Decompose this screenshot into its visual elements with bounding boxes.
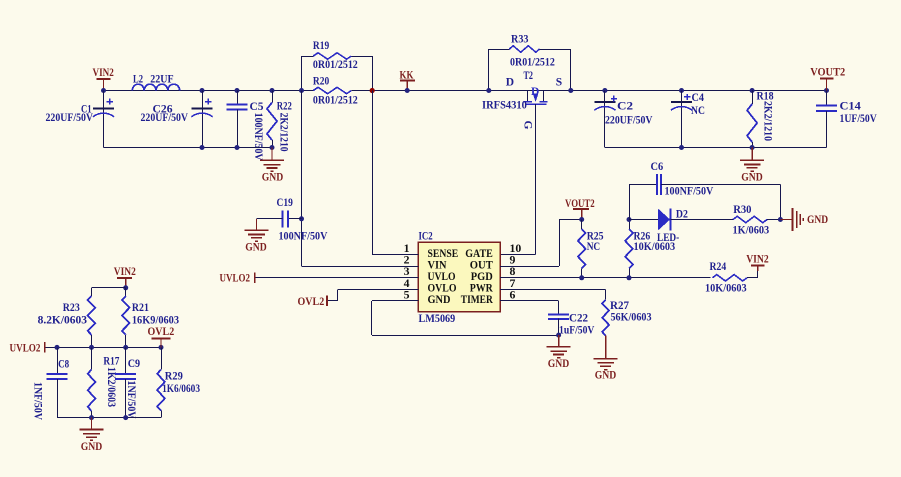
capacitor C9 bbox=[125, 347, 127, 374]
net label KK bbox=[400, 80, 415, 82]
svg-text:100NF/50V: 100NF/50V bbox=[252, 113, 264, 162]
svg-text:10K/0603: 10K/0603 bbox=[705, 283, 747, 295]
svg-text:R29: R29 bbox=[165, 371, 183, 383]
svg-text:100NF/50V: 100NF/50V bbox=[665, 186, 714, 198]
svg-text:GND: GND bbox=[428, 293, 451, 306]
wire IC pin6 TIMER bbox=[500, 300, 558, 302]
capacitor C19 bbox=[299, 216, 304, 221]
svg-text:220UF/50V: 220UF/50V bbox=[46, 112, 94, 124]
node VIN2 bottom-left bbox=[123, 285, 128, 290]
resistor R29 bbox=[161, 347, 163, 369]
svg-text:100NF/50V: 100NF/50V bbox=[279, 231, 328, 243]
svg-text:LED-: LED- bbox=[657, 232, 679, 244]
inductor L2 bbox=[132, 84, 179, 90]
svg-text:2K2/1210: 2K2/1210 bbox=[762, 101, 774, 141]
capacitor C6 loop bbox=[629, 184, 631, 219]
wire VIN2 node to R23 bbox=[92, 287, 126, 289]
svg-text:C4: C4 bbox=[692, 92, 705, 104]
svg-text:0R01/2512: 0R01/2512 bbox=[313, 59, 358, 71]
wire IC pin1 SENSE bbox=[372, 254, 418, 256]
ground GND under R18 bbox=[751, 148, 753, 161]
svg-text:UVLO2: UVLO2 bbox=[220, 273, 251, 285]
svg-text:VIN2: VIN2 bbox=[93, 67, 114, 79]
svg-text:GND: GND bbox=[245, 242, 267, 254]
supply VIN2 top-left bbox=[97, 78, 111, 80]
svg-text:C8: C8 bbox=[58, 359, 69, 371]
wire SENSE net vertical to IC pin1 bbox=[372, 91, 374, 255]
svg-text:NC: NC bbox=[587, 241, 601, 253]
svg-text:OVL2: OVL2 bbox=[148, 326, 175, 338]
svg-text:C2: C2 bbox=[617, 101, 633, 113]
svg-text:16K9/0603: 16K9/0603 bbox=[132, 315, 179, 327]
transistor T2 IRFS4310 bbox=[527, 91, 529, 101]
resistor R25 bbox=[578, 229, 586, 268]
svg-text:R20: R20 bbox=[313, 76, 329, 88]
svg-text:GND: GND bbox=[595, 370, 617, 382]
wire IC pin9 OUT to VOUT2 node bbox=[500, 266, 559, 268]
wire IC pin5 GND loop bbox=[372, 300, 419, 302]
svg-text:IC2: IC2 bbox=[419, 231, 433, 243]
resistor R26 bbox=[625, 229, 633, 268]
svg-text:8.2K/0603: 8.2K/0603 bbox=[38, 315, 88, 327]
svg-text:1K/0603: 1K/0603 bbox=[733, 225, 770, 237]
svg-text:R30: R30 bbox=[733, 204, 752, 216]
node R21/C9 bbox=[123, 345, 128, 350]
wire IC pin8 PGD net bbox=[500, 277, 710, 279]
svg-text:TIMER: TIMER bbox=[461, 293, 494, 306]
svg-text:R22: R22 bbox=[277, 101, 292, 113]
net label UVLO2 mid bbox=[254, 273, 256, 283]
resistor R17 bbox=[91, 347, 93, 369]
wire IC pin3 UVLO to UVLO2 bbox=[255, 277, 419, 279]
wire UVLO2 row bbox=[45, 347, 161, 349]
svg-text:GND: GND bbox=[548, 358, 570, 370]
ground GND under R22 bbox=[271, 148, 273, 161]
svg-text:56K/0603: 56K/0603 bbox=[611, 312, 652, 324]
svg-text:D2: D2 bbox=[676, 209, 688, 221]
wire gate to IC pin10 bbox=[535, 104, 537, 255]
capacitor C26 bbox=[200, 88, 205, 93]
node R30 right bbox=[778, 217, 783, 222]
component IC2 LM5069 bbox=[418, 242, 500, 311]
svg-text:C5: C5 bbox=[250, 101, 264, 113]
capacitor C14 bbox=[824, 88, 829, 93]
svg-text:GND: GND bbox=[807, 214, 828, 226]
svg-text:1K2/0603: 1K2/0603 bbox=[105, 367, 117, 407]
svg-text:GND: GND bbox=[262, 172, 284, 184]
capacitor C2 bbox=[602, 88, 607, 93]
node C8 top bbox=[55, 345, 60, 350]
ground GND under R27 bbox=[605, 336, 607, 359]
svg-text:IRFS4310: IRFS4310 bbox=[482, 100, 527, 112]
resistor R21 bbox=[125, 288, 127, 296]
supply VOUT2 mid bbox=[573, 208, 589, 210]
capacitor C22 bbox=[548, 314, 569, 316]
svg-text:C9: C9 bbox=[128, 358, 141, 370]
svg-text:R27: R27 bbox=[610, 300, 629, 312]
wire top rail right segment bbox=[351, 90, 826, 92]
svg-text:OVL2: OVL2 bbox=[298, 296, 325, 308]
wire IC pin4 OVLO to OVL2 bbox=[337, 289, 339, 301]
svg-text:G: G bbox=[522, 121, 534, 130]
svg-text:KK: KK bbox=[400, 70, 414, 82]
wire VIN net vertical to IC pin2 bbox=[301, 91, 303, 267]
svg-text:R23: R23 bbox=[63, 302, 80, 314]
svg-text:UVLO2: UVLO2 bbox=[10, 343, 41, 355]
svg-text:L2: L2 bbox=[133, 74, 143, 86]
svg-text:1NF/50V: 1NF/50V bbox=[32, 382, 44, 421]
resistor R30 bbox=[733, 216, 767, 222]
svg-text:C6: C6 bbox=[651, 161, 664, 173]
svg-text:1uF/50V: 1uF/50V bbox=[559, 325, 595, 337]
svg-text:NC: NC bbox=[691, 105, 705, 117]
node VIN2 junction bbox=[101, 88, 106, 93]
node VOUT2 bbox=[579, 217, 584, 222]
resistor R27 bbox=[602, 300, 609, 336]
svg-text:GND: GND bbox=[81, 441, 103, 453]
wire bottom rail right bbox=[605, 147, 827, 149]
svg-text:C22: C22 bbox=[569, 313, 588, 325]
ground GND rotated right of R30 bbox=[780, 219, 792, 221]
svg-text:T2: T2 bbox=[524, 70, 534, 82]
wire IC pin2 VIN bbox=[302, 266, 419, 268]
svg-text:LM5069: LM5069 bbox=[419, 313, 456, 325]
resistor R24 bbox=[713, 275, 748, 281]
svg-text:0R01/2512: 0R01/2512 bbox=[313, 95, 358, 107]
svg-text:2K2/1210: 2K2/1210 bbox=[278, 113, 290, 152]
node R29 top bbox=[159, 345, 164, 350]
node R23/R17 bbox=[89, 345, 94, 350]
supply VIN2 right bbox=[751, 264, 765, 266]
svg-text:R33: R33 bbox=[511, 34, 529, 46]
resistor R22 bbox=[270, 88, 275, 93]
wire top rail left segment bbox=[104, 90, 314, 92]
resistor R20 bbox=[313, 87, 351, 93]
svg-text:220UF/50V: 220UF/50V bbox=[141, 112, 189, 124]
capacitor C8 bbox=[57, 347, 59, 374]
resistor R19 bbox=[301, 56, 303, 91]
svg-text:VOUT2: VOUT2 bbox=[565, 198, 595, 210]
svg-text:R24: R24 bbox=[710, 261, 727, 273]
wire bottom rail bottom-left bbox=[57, 417, 161, 419]
ground GND under C22 bbox=[558, 335, 560, 347]
svg-text:VIN2: VIN2 bbox=[746, 254, 769, 266]
svg-text:D: D bbox=[506, 77, 514, 89]
svg-text:C14: C14 bbox=[840, 101, 862, 113]
svg-text:R21: R21 bbox=[132, 302, 149, 314]
supply VOUT2 top-right bbox=[820, 78, 833, 80]
net label UVLO2 bottom-left bbox=[44, 342, 46, 352]
capacitor C1 bbox=[103, 91, 105, 148]
node T2 source bbox=[568, 88, 573, 93]
svg-text:1UF/50V: 1UF/50V bbox=[840, 113, 878, 125]
svg-text:1K6/0603: 1K6/0603 bbox=[162, 383, 200, 395]
svg-text:VIN2: VIN2 bbox=[114, 266, 136, 278]
svg-text:S: S bbox=[556, 77, 562, 89]
supply VIN2 bottom-left bbox=[117, 277, 132, 279]
diode D2 LED bbox=[629, 219, 658, 221]
wire bottom rail left bbox=[104, 147, 273, 149]
svg-text:D: D bbox=[531, 86, 539, 98]
ground GND bottom-left bbox=[91, 418, 93, 430]
resistor R23 bbox=[91, 288, 93, 296]
net label OVL2 mid bbox=[326, 296, 328, 306]
svg-text:0R01/2512: 0R01/2512 bbox=[510, 57, 555, 69]
svg-text:R19: R19 bbox=[313, 40, 329, 52]
wire IC pin7 PWR to R27 bbox=[500, 289, 605, 291]
capacitor C4 bbox=[679, 88, 684, 93]
svg-text:1NF/50V: 1NF/50V bbox=[125, 381, 137, 420]
resistor R18 bbox=[750, 88, 755, 93]
capacitor C5 bbox=[235, 88, 240, 93]
svg-text:VOUT2: VOUT2 bbox=[810, 67, 845, 79]
node R19/R20 right junction (red) bbox=[370, 88, 375, 93]
ground GND under C19 wire bbox=[256, 219, 258, 231]
svg-text:C19: C19 bbox=[277, 197, 293, 209]
svg-text:R17: R17 bbox=[103, 356, 119, 368]
resistor R33 bbox=[488, 49, 490, 91]
node R19/R20 left junction bbox=[299, 88, 304, 93]
svg-text:220UF/50V: 220UF/50V bbox=[605, 115, 653, 127]
supply OVL2 bbox=[152, 338, 171, 340]
svg-text:GND: GND bbox=[741, 172, 763, 184]
svg-text:22UF: 22UF bbox=[150, 74, 173, 86]
node T2 drain bbox=[486, 88, 491, 93]
